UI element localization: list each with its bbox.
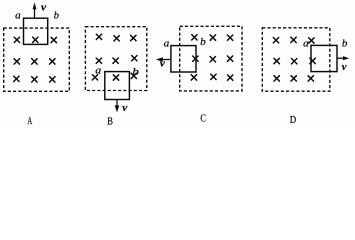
svg-text:a: a [15,10,21,21]
flux marks B [92,34,137,80]
velocity arrow A (up) [33,2,37,18]
svg-text:a: a [164,38,170,49]
field region A (dashed boundary) [4,28,70,91]
svg-text:v: v [122,102,127,114]
flux marks A [14,37,57,82]
velocity arrow B (down) [115,100,120,113]
flux marks D [273,37,315,81]
loop B (square coil ab) [105,72,130,100]
svg-text:b: b [54,11,59,22]
loop C (square coil ab) [171,46,196,72]
svg-text:v: v [160,58,165,70]
svg-text:v: v [41,1,46,13]
field region C (dashed boundary) [180,26,242,91]
velocity arrow D (right) [337,56,349,60]
svg-text:A: A [27,115,32,127]
velocity arrow C (left) [156,57,171,61]
field region D (dashed boundary) [262,28,330,91]
svg-text:D: D [290,114,296,126]
svg-text:b: b [200,37,206,48]
svg-text:B: B [107,116,113,128]
flux marks C [191,35,233,81]
svg-text:a: a [303,38,309,49]
field region B (dashed boundary) [85,27,146,91]
svg-text:C: C [200,112,206,124]
loop D (square coil ab) [311,45,337,71]
loop A (square coil ab) [24,18,48,44]
svg-text:v: v [342,61,347,73]
svg-text:b: b [342,38,348,49]
